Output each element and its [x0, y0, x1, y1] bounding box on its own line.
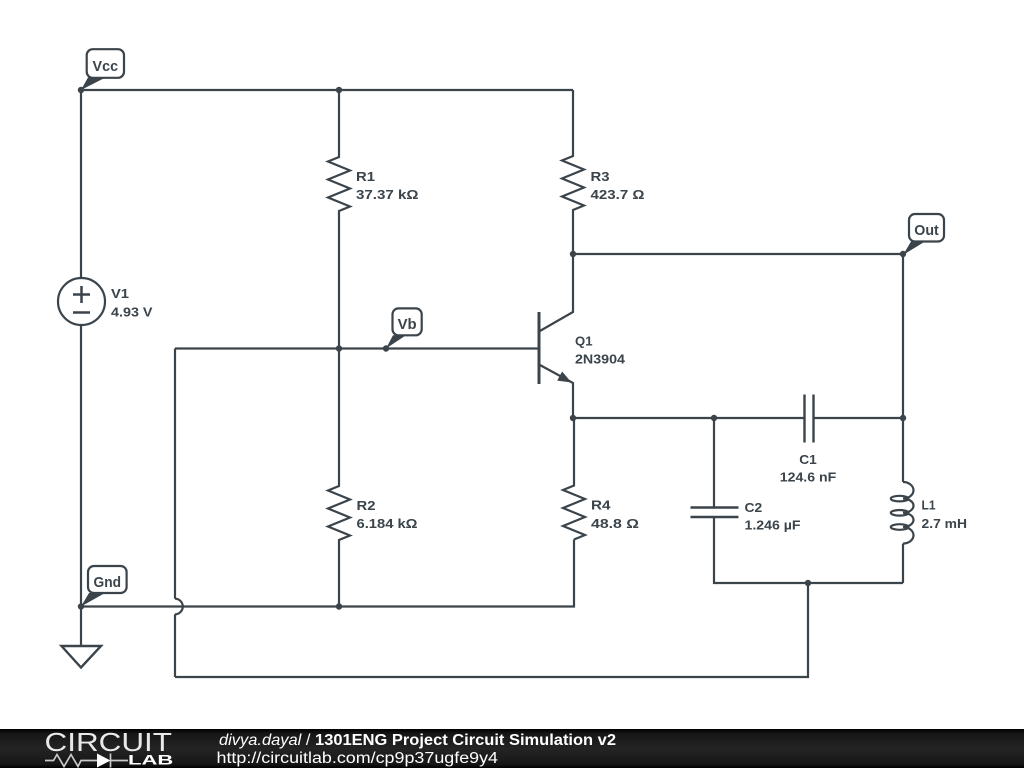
svg-text:Q1: Q1 — [575, 334, 593, 349]
svg-text:48.8 Ω: 48.8 Ω — [591, 516, 639, 531]
flag Out — [903, 214, 944, 255]
flag Gnd — [81, 566, 127, 607]
logo resistor diode squiggle — [45, 754, 128, 768]
transistor Q1 emitter arrow — [557, 372, 571, 383]
wire V1 to Gnd node — [80, 325, 82, 607]
svg-text:423.7 Ω: 423.7 Ω — [591, 187, 645, 202]
node dot L1 top — [900, 415, 906, 421]
wire top rail Vcc — [81, 89, 573, 91]
svg-text:R3: R3 — [591, 169, 610, 184]
resistor R2 — [328, 349, 350, 607]
inductor L1 — [902, 418, 904, 482]
svg-text:2N3904: 2N3904 — [575, 352, 626, 367]
wire hop arc — [175, 599, 183, 615]
node dot Vb junction — [336, 345, 342, 351]
transistor Q1 — [538, 312, 541, 384]
svg-text:R1: R1 — [356, 169, 375, 184]
capacitor C2 — [713, 418, 715, 507]
node dot collector junction — [570, 251, 576, 257]
wire left branch with hop — [174, 349, 176, 678]
node dot Vcc — [78, 87, 84, 93]
resistor R1 — [328, 90, 350, 349]
svg-text:4.93 V: 4.93 V — [111, 305, 153, 320]
svg-text:R4: R4 — [591, 498, 611, 513]
node dot R2 bottom — [336, 603, 342, 609]
capacitor C1 — [805, 395, 814, 443]
node dot R1 top — [336, 87, 342, 93]
svg-text:Gnd: Gnd — [94, 574, 122, 591]
wire left drop Vcc to V1 — [80, 90, 82, 278]
svg-text:Vb: Vb — [398, 316, 417, 333]
flag Vcc — [81, 49, 124, 90]
svg-text:C2: C2 — [745, 500, 763, 515]
node dot Gnd — [78, 603, 84, 609]
wire emitter rail — [573, 417, 903, 419]
node dot Out flag — [900, 251, 906, 257]
wire bottom rail — [175, 583, 808, 677]
node dot Vb flag — [383, 345, 389, 351]
wire out rail — [573, 254, 903, 418]
svg-text:2.7 mH: 2.7 mH — [922, 516, 968, 531]
wire Vb rail — [175, 347, 539, 349]
resistor R3 — [562, 90, 584, 254]
svg-text:37.37 kΩ: 37.37 kΩ — [356, 187, 419, 202]
svg-text:6.184 kΩ: 6.184 kΩ — [357, 516, 418, 531]
ground — [80, 607, 82, 647]
voltage source V1 — [58, 278, 105, 325]
svg-text:R2: R2 — [357, 498, 376, 513]
svg-text:http://circuitlab.com/cp9p37ug: http://circuitlab.com/cp9p37ugfe9y4 — [217, 750, 499, 767]
svg-text:LAB: LAB — [128, 753, 174, 768]
svg-text:V1: V1 — [111, 286, 129, 301]
svg-text:124.6 nF: 124.6 nF — [780, 470, 837, 485]
flag Vb — [386, 308, 422, 348]
node dot C2 top — [711, 415, 717, 421]
node dot bottom tap — [805, 580, 811, 586]
resistor R4 — [563, 418, 585, 540]
svg-text:L1: L1 — [922, 498, 936, 513]
node dot emitter junction — [570, 415, 576, 421]
svg-text:divya.dayal / 1301ENG Project: divya.dayal / 1301ENG Project Circuit Si… — [219, 732, 616, 749]
svg-text:C1: C1 — [799, 452, 817, 467]
svg-text:Out: Out — [914, 222, 939, 239]
svg-text:1.246 µF: 1.246 µF — [745, 518, 801, 533]
wire gnd rail — [81, 540, 574, 607]
svg-text:Vcc: Vcc — [93, 58, 119, 75]
